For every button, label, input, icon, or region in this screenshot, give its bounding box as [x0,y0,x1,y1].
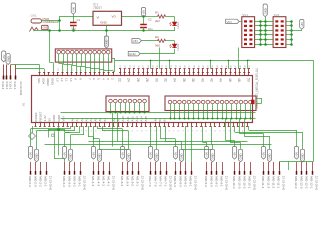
svg-text:32: 32 [164,78,168,82]
CN1 GND pin box [42,25,49,29]
svg-text:MO-3-4: MO-3-4 [62,176,66,187]
svg-text:+5V: +5V [149,152,153,157]
svg-text:11: 11 [65,78,69,81]
svg-text:7805T: 7805T [93,6,102,10]
svg-text:R2: R2 [155,35,159,39]
svg-text:IOREF: IOREF [34,112,38,121]
svg-text:8: 8 [78,78,82,80]
svg-text:+5V: +5V [63,152,67,157]
wire loop right of JP3 [256,98,262,100]
svg-text:A7: A7 [103,117,107,121]
wire LED2 down [174,49,176,54]
connector JP2 8-pin header [106,96,149,112]
svg-text:C2: C2 [148,18,152,22]
board B1 ARDUINO MEGA_R3FULL outline [32,76,253,123]
resistor R2 560 [141,40,157,42]
svg-text:+5V: +5V [300,22,304,27]
svg-text:24: 24 [127,78,131,82]
svg-text:MO-12-2: MO-12-2 [305,176,309,188]
svg-text:VI: VI [97,16,100,20]
CN1 switch pin squiggle [30,27,39,31]
svg-text:GND: GND [263,8,267,14]
svg-text:M1-4-2: M1-4-2 [102,176,106,186]
capacitor C1 [73,14,75,22]
svg-text:50: 50 [246,78,250,82]
svg-text:M1-5-2: M1-5-2 [131,176,135,186]
svg-text:560: 560 [155,43,160,47]
wire straight drop to connector [185,126,187,162]
svg-text:GND: GND [268,153,272,159]
svg-text:M1-5-4: M1-5-4 [120,176,124,186]
svg-text:X10-2: X10-2 [9,81,13,89]
svg-text:22-23-2041: 22-23-2041 [282,176,286,191]
svg-text:MO-12-4: MO-12-4 [294,176,298,188]
svg-text:13: 13 [55,78,59,82]
svg-text:GND: GND [180,153,184,159]
junction ground node [57,128,60,131]
svg-text:MO-9-1: MO-9-1 [220,176,224,187]
svg-text:A2: A2 [80,117,84,121]
wires X10 to B1 pins [11,64,40,66]
connector M1-5 with supply flags [120,147,124,160]
LED LED2 [172,44,176,48]
LED LED1 [172,22,176,26]
wire GND loop right [140,53,174,55]
svg-text:GND: GND [57,114,61,122]
svg-text:VIN: VIN [72,7,76,12]
svg-text:38: 38 [191,78,195,82]
svg-text:A0: A0 [71,117,75,121]
svg-text:MO-2-1: MO-2-1 [44,176,48,187]
connector MO-10 with supply flags [232,147,236,160]
wire R1 to LED1 [166,16,175,18]
svg-text:MA-7-4: MA-7-4 [148,176,152,186]
svg-text:GND: GND [301,153,305,159]
svg-text:M1-4-4: M1-4-4 [91,176,95,186]
svg-text:3.3V: 3.3V [43,115,47,121]
svg-text:MO-2-4: MO-2-4 [28,176,32,187]
wire to header JP1 area [49,31,51,63]
svg-text:22-23-2041: 22-23-2041 [194,176,198,191]
svg-text:A3: A3 [84,117,88,121]
svg-text:10u: 10u [148,27,153,31]
svg-text:GND: GND [51,78,55,86]
svg-text:40: 40 [200,78,204,82]
ground diamond flag bottom left [29,133,36,140]
wire VO to +5V [122,16,148,18]
svg-text:MO-2-3: MO-2-3 [33,176,37,187]
svg-text:22-23-2041: 22-23-2041 [19,81,23,96]
svg-text:VIN: VIN [133,39,138,43]
svg-text:LED2: LED2 [176,43,180,50]
svg-text:MA-7-1: MA-7-1 [164,176,168,186]
svg-text:34: 34 [173,78,177,82]
connector MO-3 with supply flags [62,147,66,160]
svg-text:+5V: +5V [262,152,266,157]
svg-text:M1-5-1: M1-5-1 [136,176,140,186]
wire LED1 to ground bus [174,27,176,31]
wire JP1 right pin [112,58,115,60]
svg-text:22-23-2041: 22-23-2041 [83,176,87,191]
svg-text:+5V: +5V [29,152,33,157]
svg-text:12: 12 [60,78,64,82]
svg-text:X10-4: X10-4 [1,81,5,89]
svg-text:CN1: CN1 [31,14,37,18]
wire distribution row under JP2/JP3 [61,112,256,114]
svg-text:2k2: 2k2 [155,19,160,23]
wires upper right to dual pins [150,60,152,69]
svg-text:GND: GND [35,153,39,159]
svg-text:R1: R1 [155,11,159,15]
svg-text:MO-8-2: MO-8-2 [184,176,188,187]
connector MO-9 with supply flags [204,147,208,160]
svg-text:VIN: VIN [61,116,65,121]
svg-text:GND: GND [52,114,56,122]
svg-text:C1: C1 [77,18,81,22]
svg-text:MO-11-1: MO-11-1 [277,176,281,188]
svg-text:A4: A4 [89,117,93,121]
svg-text:MO-12-1: MO-12-1 [310,176,314,188]
svg-text:MO-9-2: MO-9-2 [215,176,219,187]
svg-text:22: 22 [118,78,122,82]
svg-text:+5V: +5V [233,152,237,157]
svg-text:GND: GND [6,56,10,62]
svg-text:MA-7-3: MA-7-3 [153,176,157,186]
svg-text:44: 44 [219,78,223,82]
svg-text:GND: GND [127,153,131,159]
net flag VIN to R2 [132,39,142,43]
svg-text:28: 28 [145,78,149,82]
svg-text:5: 5 [97,78,101,80]
wires board to bottom connectors right [150,126,152,141]
ground bus wire [34,30,175,32]
svg-text:+5V: +5V [92,152,96,157]
svg-text:10u: 10u [71,27,76,31]
svg-text:+5V: +5V [174,152,178,157]
svg-text:MO-9-3: MO-9-3 [209,176,213,187]
wires SV1-SV2 interconnect [255,21,274,23]
net flag +5V [141,8,145,18]
svg-text:SDA: SDA [42,78,46,85]
svg-text:GND: GND [211,153,215,159]
svg-text:46: 46 [228,78,232,82]
svg-text:22-23-2041: 22-23-2041 [49,176,53,191]
JP1 pin wires down to B1 [58,54,60,63]
svg-text:MO-8-4: MO-8-4 [173,176,177,187]
svg-text:MO-11-2: MO-11-2 [272,176,276,188]
svg-text:X10-3: X10-3 [5,81,9,89]
svg-text:GND: GND [69,153,73,159]
svg-text:+5V: +5V [121,152,125,157]
svg-text:10: 10 [69,78,73,82]
svg-text:A6: A6 [98,117,102,121]
svg-text:MO-10-4: MO-10-4 [232,176,236,188]
svg-text:6: 6 [92,78,96,80]
svg-text:42: 42 [210,78,214,82]
connector X10 with supply flags [2,51,6,62]
svg-text:X10-1: X10-1 [13,81,17,89]
svg-text:22-23-2041: 22-23-2041 [141,176,145,191]
svg-text:4: 4 [101,78,105,80]
connector MO-12 with supply flags [294,147,298,160]
svg-text:AREF: AREF [46,78,50,86]
svg-text:GND: GND [155,153,159,159]
svg-text:MO-11-3: MO-11-3 [266,176,270,188]
svg-text:GND: GND [43,27,49,30]
connector JP3 18-pin header [165,96,256,111]
svg-text:M1-4-3: M1-4-3 [96,176,100,186]
connector MO-8 with supply flags [173,147,177,160]
svg-text:A5: A5 [94,117,98,121]
svg-text:+5V: +5V [142,10,146,15]
connector MO-2 with supply flags [28,147,32,160]
svg-text:22-23-2041: 22-23-2041 [112,176,116,191]
svg-text:MO-9-4: MO-9-4 [204,176,208,187]
svg-text:MO-12-3: MO-12-3 [299,176,303,188]
svg-text:22-23-2041: 22-23-2041 [315,176,319,191]
svg-text:MO-10-2: MO-10-2 [243,176,247,188]
connector MA-7 with supply flags [148,147,152,160]
supply flag +5V right of SV2 [300,20,304,30]
svg-text:GND: GND [100,21,106,25]
svg-text:22-23-2041: 22-23-2041 [225,176,229,191]
svg-text:MO-10-1: MO-10-1 [248,176,252,188]
connector MO-11 with supply flags [261,147,265,160]
svg-text:+5V: +5V [205,152,209,157]
svg-text:5V: 5V [48,118,52,122]
svg-text:B1: B1 [22,102,26,106]
svg-text:MO-2-2: MO-2-2 [39,176,43,187]
svg-text:GND: GND [239,153,243,159]
svg-text:M1-4-1: M1-4-1 [107,176,111,186]
svg-text:GND: GND [129,52,137,56]
svg-text:7: 7 [88,78,92,80]
wire long verticals through middle [112,113,114,147]
svg-text:22-23-2041: 22-23-2041 [253,176,257,191]
svg-text:MO-11-4: MO-11-4 [261,176,265,188]
svg-text:VIN: VIN [227,20,232,24]
svg-text:MO-3-1: MO-3-1 [78,176,82,187]
net flag VIN [71,3,75,14]
svg-text:48: 48 [237,78,241,82]
svg-text:22-23-2041: 22-23-2041 [169,176,173,191]
svg-text:36: 36 [182,78,186,82]
wire CN1 to VI [42,20,60,22]
svg-text:22-23-2041: 22-23-2041 [105,35,107,47]
net flag GND mid [128,52,140,56]
connector M1-4 with supply flags [91,147,95,160]
resistor R1 2k2 [147,16,157,18]
supply flag GND under IC1 [104,36,108,48]
net flag VIN left of SV1 [226,19,240,23]
svg-text:LED1: LED1 [176,21,180,28]
B1 top pin row single [39,72,41,76]
svg-text:MO-3-2: MO-3-2 [73,176,77,187]
svg-text:MO-10-3: MO-10-3 [237,176,241,188]
svg-text:RESET: RESET [38,111,42,121]
svg-text:3: 3 [106,78,110,80]
svg-text:VO: VO [112,15,117,19]
B1 top pin row dual 22-53 [120,69,122,76]
long distribution wires above connectors [89,141,248,143]
wire R2 to LED2 [166,40,175,42]
B1 bottom pin row [35,123,37,127]
svg-text:MO-3-3: MO-3-3 [67,176,71,187]
svg-text:2: 2 [111,78,115,80]
wires board to bottom connectors staircase [70,126,72,129]
svg-text:MA-7-2: MA-7-2 [159,176,163,186]
svg-text:+5V: +5V [2,54,6,59]
svg-text:A1: A1 [75,117,79,121]
svg-text:M1-5-3: M1-5-3 [125,176,129,186]
supply flag GND above SV2 [263,4,267,17]
capacitor C2 [143,17,145,25]
svg-text:GND: GND [98,153,102,159]
svg-text:9: 9 [74,78,78,80]
svg-text:SCL: SCL [37,78,41,84]
svg-text:+5V: +5V [295,152,299,157]
svg-text:26: 26 [136,78,140,82]
svg-text:30: 30 [154,78,158,82]
svg-text:MO-8-1: MO-8-1 [189,176,193,187]
wire rail linking connector flags [100,149,129,151]
wire IC1 GND down [106,25,108,36]
svg-text:MO-8-3: MO-8-3 [178,176,182,187]
